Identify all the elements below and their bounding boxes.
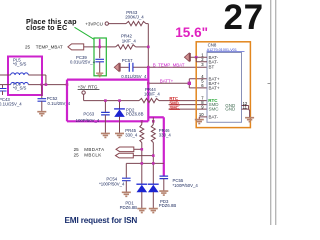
pin 9 SMC xyxy=(201,105,219,112)
resistor PR42 xyxy=(116,34,137,50)
wire MBDATA xyxy=(134,148,142,150)
pin 2 BAT- xyxy=(196,57,218,64)
svg-text:15.6": 15.6" xyxy=(175,25,208,40)
svg-text:GND: GND xyxy=(225,107,236,112)
capacitor PC63 xyxy=(76,101,110,133)
svg-text:BAT-: BAT- xyxy=(209,115,219,120)
power flag at pin 1 xyxy=(184,53,190,61)
svg-text:0.01U/25V_4: 0.01U/25V_4 xyxy=(121,74,147,79)
svg-text:+3VPCU: +3VPCU xyxy=(85,21,103,26)
wire +3V_RTG row xyxy=(84,100,139,102)
svg-text:BAT-: BAT- xyxy=(209,59,219,64)
note pointer line xyxy=(75,27,95,39)
junction PR45 top xyxy=(141,120,144,123)
svg-text:*100P/50V_4: *100P/50V_4 xyxy=(173,183,199,188)
svg-text:*0_S/S: *0_S/S xyxy=(13,86,27,91)
svg-text:MBCLK: MBCLK xyxy=(84,153,101,158)
junction at PR42/node xyxy=(147,46,150,49)
pin 5 BAT+ xyxy=(201,79,220,86)
resistor PR45 xyxy=(125,121,144,184)
ground below pin 10 xyxy=(195,120,204,124)
pin 10 BAT- xyxy=(199,112,219,119)
thick net BATT+ xyxy=(67,68,164,176)
svg-text:A1279-01001-V01: A1279-01001-V01 xyxy=(207,47,238,52)
connector CN8 refdes xyxy=(208,43,217,48)
svg-text:PDZ6.8B: PDZ6.8B xyxy=(126,112,144,117)
svg-text:PDZ6.8B: PDZ6.8B xyxy=(159,203,177,208)
wire joining PL5 to PL6 output xyxy=(45,75,47,85)
svg-text:6: 6 xyxy=(201,83,204,88)
wire BATT+ to pins 4-6 xyxy=(148,79,207,88)
junction MBCLK xyxy=(152,154,155,157)
wire B_TEMP_MBAT row to pin 3 xyxy=(134,66,208,68)
net label B_TEMP_MBAT xyxy=(153,62,185,67)
svg-text:EMI request for ISN: EMI request for ISN xyxy=(65,216,138,225)
ground below PD1 xyxy=(137,209,146,213)
zener PD3 xyxy=(148,184,176,208)
wire TEMP_MBAT to PC39 and PR42 xyxy=(84,46,116,48)
vertical node wire x148 xyxy=(147,24,149,68)
junction node/B_TEMP row xyxy=(147,66,150,69)
junction pin1 xyxy=(195,56,198,59)
ground below pins 11-12 xyxy=(245,118,254,122)
pin 12 GND xyxy=(225,101,248,108)
svg-text:25: 25 xyxy=(74,153,80,158)
pin 7 RTC xyxy=(201,96,218,104)
junction PD2 xyxy=(118,99,121,102)
port MBCLK pin 25 xyxy=(74,153,134,158)
svg-text:*0_S/S: *0_S/S xyxy=(13,61,27,66)
junction PC63 xyxy=(104,99,107,102)
svg-text:100P/50V_4: 100P/50V_4 xyxy=(76,118,100,123)
svg-text:close to EC: close to EC xyxy=(26,23,67,32)
ground below PD2 xyxy=(115,133,124,137)
wire SMD to pin 8 xyxy=(169,104,208,106)
junction PL6 wire to thick net xyxy=(66,83,69,86)
svg-text:PC57: PC57 xyxy=(122,58,133,63)
svg-text:27: 27 xyxy=(224,0,264,37)
wire PR44 to pin 7 xyxy=(159,100,207,102)
net label SMD xyxy=(169,100,180,105)
svg-text:10: 10 xyxy=(199,112,204,117)
junction PR46 top xyxy=(152,120,155,123)
svg-text:TEMP_MBAT: TEMP_MBAT xyxy=(36,45,63,50)
svg-text:330_4: 330_4 xyxy=(125,133,138,138)
junction PL joiner xyxy=(45,83,48,86)
zener PD2 xyxy=(114,101,143,133)
svg-text:330_4: 330_4 xyxy=(159,133,172,138)
svg-text:25: 25 xyxy=(25,45,31,50)
connector CN8 inner body xyxy=(207,53,242,123)
wire PR43 to node xyxy=(146,23,148,25)
note 15.6" xyxy=(175,25,208,40)
capacitor PC39 xyxy=(70,39,104,73)
pin 3 BT xyxy=(201,62,214,70)
ground below PC63 xyxy=(101,133,110,137)
net label SMC xyxy=(169,105,180,110)
wire ESD common row xyxy=(126,162,164,164)
svg-text:1K/F_4: 1K/F_4 xyxy=(122,39,137,44)
svg-text:*100P/50V_4: *100P/50V_4 xyxy=(99,181,125,186)
net label BATT+ xyxy=(160,79,174,84)
wire +3VPCU to PR43 xyxy=(109,23,127,25)
ground below PC39 xyxy=(96,73,103,76)
svg-text:3: 3 xyxy=(201,62,204,67)
ground below PD3 xyxy=(149,209,158,213)
junction MBDATA xyxy=(141,148,144,151)
ground below PC52 xyxy=(37,112,46,116)
svg-text:PC63: PC63 xyxy=(83,112,94,117)
resistor PR46 xyxy=(151,117,171,184)
connector CN8 part number A1279-01001-V01 xyxy=(207,47,245,52)
net label RTC xyxy=(169,96,180,101)
highlight box around PC39 xyxy=(94,38,106,76)
capacitor PC54 xyxy=(99,163,131,191)
note: EMI request for ISN xyxy=(65,216,138,225)
junction ESD row right xyxy=(152,162,155,165)
power symbol +3V_RTG xyxy=(78,85,100,101)
wire MBCLK xyxy=(133,155,153,157)
inductor PL6 xyxy=(0,82,67,91)
svg-text:25: 25 xyxy=(74,147,80,152)
sheet border right double line xyxy=(268,0,276,225)
ground below PC55 xyxy=(159,191,168,195)
wire PR42 to node xyxy=(136,46,149,48)
svg-text:100/F_4: 100/F_4 xyxy=(144,92,160,97)
pin 1 BAT- xyxy=(190,52,218,59)
pin 11 GND xyxy=(225,105,249,118)
svg-text:B_TEMP_MBAT: B_TEMP_MBAT xyxy=(153,62,185,67)
note: Place this cap close to EC xyxy=(26,17,77,32)
svg-text:PDZ6.8B: PDZ6.8B xyxy=(120,205,138,210)
pin 6 BAT+ xyxy=(201,83,220,90)
filter module box PL5/PL6 xyxy=(8,57,42,96)
capacitor PC43 xyxy=(0,85,22,107)
capacitor PC55 xyxy=(160,176,199,191)
junction BATT+ tap xyxy=(147,82,150,85)
zener PD1 xyxy=(120,184,148,210)
junction PC39/wire xyxy=(98,46,101,49)
svg-text:BAT+: BAT+ xyxy=(209,86,220,91)
resistor PR43 xyxy=(125,10,146,26)
inductor PL5 xyxy=(0,57,46,75)
ground below PC54 xyxy=(122,192,131,196)
svg-text:0.01U/25V_4: 0.01U/25V_4 xyxy=(70,59,96,64)
svg-text:200K/J_4: 200K/J_4 xyxy=(125,15,144,20)
svg-text:0.1U/25V_4: 0.1U/25V_4 xyxy=(0,102,22,107)
capacitor PC57 xyxy=(121,58,147,79)
port TEMP_MBAT pin 25 xyxy=(25,44,84,50)
junction PC52 branch xyxy=(41,83,44,86)
port MBDATA pin 25 xyxy=(74,147,134,152)
pin 4 BAT+ xyxy=(201,74,220,81)
power net +3VPCU xyxy=(85,21,108,26)
pin 8 SMD xyxy=(201,100,219,107)
wire SMC to pin 9 xyxy=(169,108,208,110)
power flag at PC57 xyxy=(114,63,120,71)
svg-text:11: 11 xyxy=(243,105,248,110)
svg-text:BT: BT xyxy=(209,65,215,70)
connector CN8 outer body xyxy=(196,42,250,128)
junction BATT+ at pins xyxy=(188,82,191,85)
page number 27 xyxy=(224,0,264,37)
resistor PR44 xyxy=(139,87,160,103)
capacitor PC52 xyxy=(38,85,71,112)
svg-text:MBDATA: MBDATA xyxy=(84,147,104,152)
svg-text:SMC: SMC xyxy=(209,107,220,112)
junction ESD row left xyxy=(141,162,144,165)
svg-text:+3V_RTG: +3V_RTG xyxy=(78,85,98,90)
